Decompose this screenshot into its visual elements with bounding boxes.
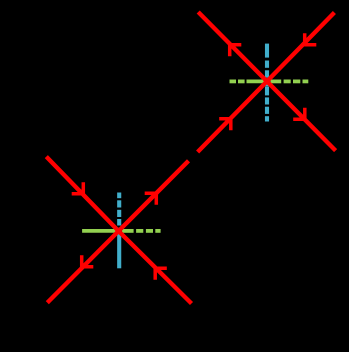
space axis (dashed green) right of vertex A [271,80,309,84]
arrow on vertex B upper-left arm (pointing down-right) [72,182,84,194]
world line 2 through vertex A (upper-right to lower-left) [198,13,335,153]
arrow on vertex B lower-left arm (pointing down-left) [82,255,94,267]
world line 1 through vertex A (upper-left to lower-right) [198,12,335,151]
arrow on vertex A lower-left arm (pointing up-right) [219,119,231,131]
arrow on vertex A upper-left arm (pointing up-left) [230,45,242,57]
arrow on vertex B lower-right arm (pointing up-left) [155,268,167,280]
time axis (dashed blue) above vertex A (top-right) [265,44,269,87]
world line 4 through vertex B (lower-left to upper-right) [47,161,188,303]
time axis (dashed blue) below vertex A [265,87,269,122]
space axis (dashed green) left of vertex A [230,80,265,84]
space axis (solid green) left of vertex B [82,229,120,233]
time axis (dashed blue) above vertex B (bottom-left) [117,193,121,233]
arrow on vertex B upper-right arm (pointing up-right) [145,193,157,205]
time axis (solid blue) below vertex B [117,231,121,268]
arrow on vertex A lower-right arm (pointing down-right) [293,108,305,120]
space axis (dashed green) right of vertex B [122,229,161,233]
world line 3 through vertex B (upper-left to lower-right) [46,157,191,304]
arrow on vertex A upper-right arm (pointing down-left) [305,33,317,45]
